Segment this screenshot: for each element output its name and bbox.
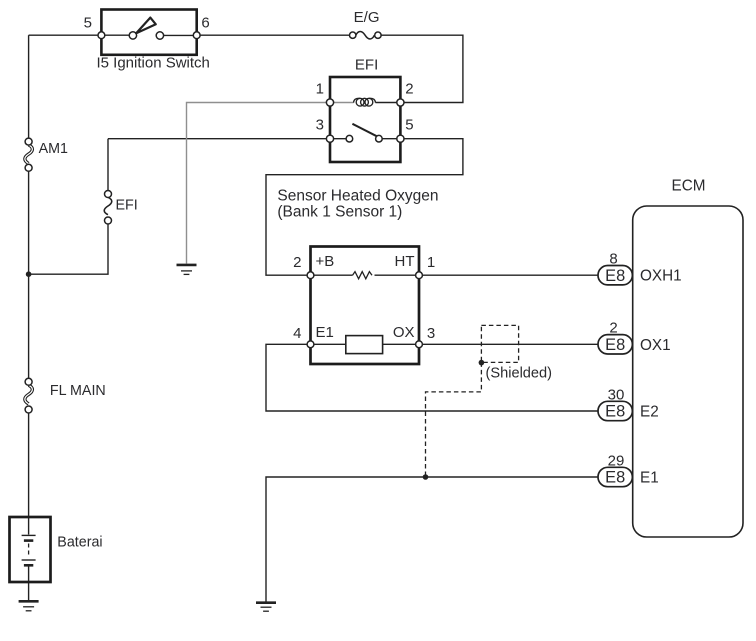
svg-text:5: 5 (405, 117, 413, 134)
svg-text:Sensor Heated Oxygen: Sensor Heated Oxygen (277, 188, 438, 205)
svg-text:(Shielded): (Shielded) (486, 366, 553, 382)
svg-text:29: 29 (608, 452, 625, 469)
svg-text:+B: +B (316, 253, 335, 270)
svg-text:E1: E1 (316, 324, 334, 341)
svg-text:2: 2 (609, 320, 617, 337)
svg-text:OX1: OX1 (640, 337, 671, 354)
svg-text:EFI: EFI (116, 198, 138, 214)
svg-text:E8: E8 (605, 336, 625, 354)
svg-text:4: 4 (293, 325, 301, 342)
svg-text:30: 30 (608, 386, 625, 403)
svg-text:2: 2 (405, 81, 413, 98)
svg-text:1: 1 (316, 81, 324, 98)
svg-text:(Bank 1 Sensor 1): (Bank 1 Sensor 1) (277, 203, 402, 220)
svg-text:OXH1: OXH1 (640, 268, 682, 285)
svg-text:HT: HT (395, 253, 415, 270)
svg-text:E8: E8 (605, 469, 625, 487)
svg-text:3: 3 (427, 325, 435, 342)
svg-text:I5 Ignition Switch: I5 Ignition Switch (97, 55, 210, 72)
svg-text:FL MAIN: FL MAIN (50, 383, 106, 399)
svg-text:E2: E2 (640, 404, 659, 421)
svg-text:5: 5 (84, 15, 92, 32)
svg-text:2: 2 (293, 254, 301, 271)
svg-text:E8: E8 (605, 403, 625, 421)
svg-text:E1: E1 (640, 470, 659, 487)
svg-text:3: 3 (316, 117, 324, 134)
svg-text:1: 1 (427, 254, 435, 271)
svg-text:6: 6 (201, 15, 209, 32)
svg-text:EFI: EFI (355, 57, 378, 74)
svg-text:E/G: E/G (354, 9, 380, 26)
svg-text:Baterai: Baterai (57, 534, 102, 550)
svg-text:8: 8 (609, 251, 617, 268)
svg-text:ECM: ECM (672, 178, 706, 195)
svg-text:E8: E8 (605, 267, 625, 285)
svg-text:AM1: AM1 (39, 141, 68, 157)
svg-text:OX: OX (393, 324, 415, 341)
